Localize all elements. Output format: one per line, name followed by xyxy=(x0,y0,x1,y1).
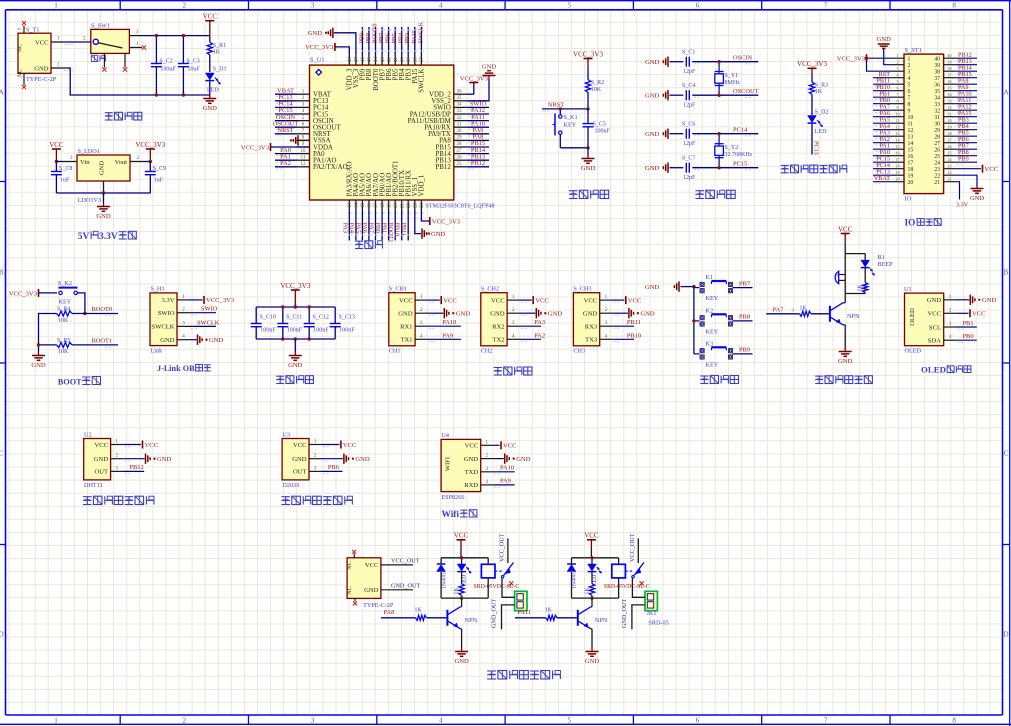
svg-text:SWIO: SWIO xyxy=(158,310,175,317)
svg-text:46: 46 xyxy=(361,57,366,63)
svg-text:IO: IO xyxy=(905,217,916,227)
svg-text:S_CH2: S_CH2 xyxy=(481,286,499,293)
svg-text:B1: B1 xyxy=(878,254,885,261)
svg-text:NC: NC xyxy=(346,586,353,595)
svg-text:GND_OUT: GND_OUT xyxy=(491,599,498,628)
svg-text:7: 7 xyxy=(824,1,828,9)
svg-text:J-Link OB: J-Link OB xyxy=(157,364,195,373)
svg-text:10: 10 xyxy=(908,115,914,121)
svg-text:1uF: 1uF xyxy=(60,177,70,183)
svg-text:38: 38 xyxy=(934,69,940,75)
svg-text:VCC: VCC xyxy=(399,297,413,304)
svg-text:17: 17 xyxy=(374,203,379,209)
svg-text:PC14: PC14 xyxy=(733,126,748,133)
svg-text:21: 21 xyxy=(400,203,405,209)
svg-text:100nF: 100nF xyxy=(287,328,303,334)
svg-text:33: 33 xyxy=(947,99,951,104)
svg-text:GND: GND xyxy=(454,658,469,665)
svg-text:29: 29 xyxy=(457,136,463,141)
svg-text:39: 39 xyxy=(407,57,412,63)
svg-text:DHT11: DHT11 xyxy=(84,482,103,489)
svg-text:1K: 1K xyxy=(815,89,823,95)
svg-text:K3: K3 xyxy=(706,340,714,347)
svg-text:B: B xyxy=(1004,269,1009,277)
svg-text:GND: GND xyxy=(583,311,598,318)
svg-text:NC: NC xyxy=(17,44,24,53)
svg-text:S_C1: S_C1 xyxy=(682,50,695,56)
svg-text:SWCLK: SWCLK xyxy=(417,21,424,43)
svg-text:GND: GND xyxy=(645,93,660,100)
svg-text:17: 17 xyxy=(895,157,899,162)
svg-text:GND: GND xyxy=(34,65,49,72)
svg-text:SRD-05VDC-SL-C: SRD-05VDC-SL-C xyxy=(604,584,650,590)
svg-text:GND: GND xyxy=(96,213,111,220)
svg-text:GND: GND xyxy=(645,284,660,291)
svg-text:27: 27 xyxy=(947,138,951,143)
svg-text:GND: GND xyxy=(490,311,505,318)
svg-text:26: 26 xyxy=(947,144,951,149)
svg-text:32: 32 xyxy=(457,116,463,121)
svg-text:RX1: RX1 xyxy=(400,324,412,331)
svg-text:S_R1: S_R1 xyxy=(213,43,226,49)
svg-text:VCC: VCC xyxy=(95,442,109,449)
svg-text:PA10: PA10 xyxy=(500,465,514,472)
svg-text:PA5: PA5 xyxy=(354,223,361,233)
svg-text:VCC: VCC xyxy=(203,13,218,21)
svg-text:VCC: VCC xyxy=(838,225,853,233)
svg-text:11: 11 xyxy=(301,155,306,160)
svg-text:JK1: JK1 xyxy=(647,610,657,617)
svg-text:GND: GND xyxy=(203,105,218,112)
svg-text:GND: GND xyxy=(355,456,370,463)
svg-text:S_R4: S_R4 xyxy=(57,306,70,312)
svg-text:8: 8 xyxy=(952,1,956,9)
svg-text:GND: GND xyxy=(308,30,323,37)
svg-text:S_U1: S_U1 xyxy=(310,56,325,63)
svg-text:PB9: PB9 xyxy=(739,347,750,354)
svg-text:VCC_3V3: VCC_3V3 xyxy=(573,50,603,58)
svg-text:GND: GND xyxy=(431,231,446,238)
svg-text:6: 6 xyxy=(696,1,700,9)
svg-text:18: 18 xyxy=(895,164,899,169)
svg-text:13: 13 xyxy=(348,203,353,209)
svg-text:VCC_3V3: VCC_3V3 xyxy=(280,282,310,290)
svg-text:30: 30 xyxy=(947,118,951,123)
svg-text:RX2: RX2 xyxy=(492,324,504,331)
svg-text:S_C13: S_C13 xyxy=(339,315,355,321)
svg-text:41: 41 xyxy=(394,57,399,63)
svg-text:VCC_OUT: VCC_OUT xyxy=(629,533,636,562)
svg-text:TXD: TXD xyxy=(465,469,479,476)
svg-text:LED: LED xyxy=(815,129,827,135)
svg-text:27: 27 xyxy=(457,149,463,154)
svg-text:GND: GND xyxy=(581,165,596,172)
svg-text:C: C xyxy=(0,450,4,458)
svg-text:PB11: PB11 xyxy=(627,319,641,326)
svg-text:35: 35 xyxy=(457,96,463,101)
svg-text:24: 24 xyxy=(420,203,425,209)
svg-text:VCC_OUT: VCC_OUT xyxy=(391,558,420,565)
svg-text:10K: 10K xyxy=(591,87,602,93)
svg-text:5: 5 xyxy=(896,79,898,84)
svg-text:21: 21 xyxy=(934,180,940,186)
svg-text:10K: 10K xyxy=(58,318,69,324)
svg-text:21: 21 xyxy=(947,177,951,182)
svg-text:VCC_3V3: VCC_3V3 xyxy=(460,75,489,82)
svg-text:PB12: PB12 xyxy=(130,464,144,471)
svg-text:GND: GND xyxy=(292,456,307,463)
svg-text:5: 5 xyxy=(567,1,571,9)
svg-text:PB10: PB10 xyxy=(627,332,641,339)
svg-text:37: 37 xyxy=(947,73,951,78)
svg-text:3.3V: 3.3V xyxy=(956,202,969,209)
svg-text:1: 1 xyxy=(896,53,898,58)
svg-text:Link: Link xyxy=(151,347,164,354)
svg-text:PA9: PA9 xyxy=(500,478,511,485)
svg-text:29: 29 xyxy=(934,128,940,134)
svg-text:1: 1 xyxy=(54,717,58,725)
svg-text:32: 32 xyxy=(947,105,951,110)
svg-text:S_C2: S_C2 xyxy=(159,59,172,65)
svg-text:VCC: VCC xyxy=(628,297,642,304)
svg-text:WIFI: WIFI xyxy=(445,457,452,471)
svg-text:22: 22 xyxy=(407,203,412,209)
svg-text:20: 20 xyxy=(895,177,899,182)
svg-text:18: 18 xyxy=(908,167,914,173)
svg-text:10: 10 xyxy=(301,149,307,154)
svg-text:3.3V: 3.3V xyxy=(99,232,118,242)
svg-text:30: 30 xyxy=(457,129,463,134)
svg-text:1N4007: 1N4007 xyxy=(441,570,447,589)
svg-text:3: 3 xyxy=(311,1,315,9)
svg-text:CH1: CH1 xyxy=(389,347,401,354)
svg-text:U1: U1 xyxy=(904,286,912,293)
svg-text:14: 14 xyxy=(355,203,360,209)
svg-text:28: 28 xyxy=(947,131,951,136)
svg-text:12: 12 xyxy=(301,162,307,167)
svg-text:GND: GND xyxy=(585,658,600,665)
svg-text:26: 26 xyxy=(934,147,940,153)
svg-text:GND: GND xyxy=(94,456,109,463)
svg-text:7: 7 xyxy=(908,95,911,101)
svg-text:23: 23 xyxy=(934,167,940,173)
svg-text:GND: GND xyxy=(645,165,660,172)
svg-text:PB11: PB11 xyxy=(400,223,407,237)
svg-text:VCC_3V3: VCC_3V3 xyxy=(305,44,334,51)
svg-text:GND: GND xyxy=(31,362,46,369)
svg-text:8MHz: 8MHz xyxy=(725,80,741,86)
svg-text:SWCLK: SWCLK xyxy=(151,324,174,331)
svg-text:RXD: RXD xyxy=(464,482,478,489)
svg-text:8: 8 xyxy=(952,717,956,725)
svg-text:PB10: PB10 xyxy=(394,223,401,237)
svg-text:NC: NC xyxy=(17,69,24,78)
svg-text:5: 5 xyxy=(908,82,911,88)
svg-text:GND: GND xyxy=(970,195,985,202)
svg-text:31: 31 xyxy=(457,122,463,127)
svg-text:1uF: 1uF xyxy=(154,177,164,183)
svg-text:37: 37 xyxy=(934,76,940,82)
svg-text:PA11: PA11 xyxy=(517,609,531,616)
svg-text:PA7: PA7 xyxy=(773,307,785,314)
svg-text:PA10: PA10 xyxy=(442,319,456,326)
svg-text:3: 3 xyxy=(908,69,911,75)
svg-text:PA9: PA9 xyxy=(442,332,453,339)
svg-text:15: 15 xyxy=(908,147,914,153)
svg-text:S_T1: S_T1 xyxy=(26,27,39,34)
svg-text:GND_OUT: GND_OUT xyxy=(391,583,420,590)
svg-text:22: 22 xyxy=(947,170,951,175)
svg-text:38: 38 xyxy=(947,66,951,71)
svg-text:20: 20 xyxy=(394,203,399,209)
svg-text:GND: GND xyxy=(640,311,655,318)
svg-text:PA6: PA6 xyxy=(361,223,368,233)
svg-text:10: 10 xyxy=(895,112,899,117)
svg-text:GND: GND xyxy=(157,456,172,463)
svg-text:4: 4 xyxy=(439,1,443,9)
svg-text:VCC_3V3: VCC_3V3 xyxy=(135,141,165,149)
svg-text:PC15: PC15 xyxy=(733,160,747,167)
svg-text:100nF: 100nF xyxy=(260,328,276,334)
svg-text:11: 11 xyxy=(908,121,914,127)
svg-text:29: 29 xyxy=(947,125,951,130)
svg-text:VCC_3V3: VCC_3V3 xyxy=(837,56,866,63)
svg-text:PA2/TX/AO: PA2/TX/AO xyxy=(313,164,348,171)
svg-text:S_Y2: S_Y2 xyxy=(725,145,739,151)
svg-text:5: 5 xyxy=(567,717,571,725)
svg-text:S_C4: S_C4 xyxy=(682,83,695,89)
svg-text:10K: 10K xyxy=(58,349,69,355)
svg-text:S_ST1: S_ST1 xyxy=(905,47,922,54)
svg-text:PA2: PA2 xyxy=(280,160,291,167)
svg-text:40: 40 xyxy=(934,56,940,62)
svg-text:PB1: PB1 xyxy=(381,223,388,234)
svg-text:S_C12: S_C12 xyxy=(313,315,329,321)
svg-text:26: 26 xyxy=(457,155,463,160)
svg-text:OLED: OLED xyxy=(921,365,946,375)
svg-text:GND: GND xyxy=(516,456,531,463)
svg-text:VCC: VCC xyxy=(535,297,549,304)
svg-text:STM32F103C8T6_LQFP48: STM32F103C8T6_LQFP48 xyxy=(426,203,495,209)
svg-text:RX3: RX3 xyxy=(585,324,598,331)
svg-text:VCC: VCC xyxy=(35,39,49,46)
svg-text:SWIO: SWIO xyxy=(201,306,218,313)
svg-text:VCC: VCC xyxy=(927,311,941,318)
svg-text:27: 27 xyxy=(934,141,940,147)
svg-text:23: 23 xyxy=(947,164,951,169)
svg-text:VCC: VCC xyxy=(584,297,598,304)
svg-text:GND: GND xyxy=(99,161,106,176)
svg-text:PB1: PB1 xyxy=(963,320,974,327)
svg-text:15: 15 xyxy=(361,203,366,209)
svg-text:GND: GND xyxy=(645,59,660,66)
svg-text:33: 33 xyxy=(457,109,463,114)
svg-text:SDA: SDA xyxy=(928,338,941,345)
svg-text:A: A xyxy=(1003,89,1008,97)
svg-text:BOOT0: BOOT0 xyxy=(92,306,113,313)
svg-text:S_CH3: S_CH3 xyxy=(573,286,591,293)
svg-text:K1: K1 xyxy=(706,274,714,281)
svg-text:19: 19 xyxy=(908,173,914,179)
svg-text:36: 36 xyxy=(934,82,940,88)
svg-text:U3: U3 xyxy=(282,431,290,438)
svg-text:12: 12 xyxy=(908,128,914,134)
svg-text:PB6: PB6 xyxy=(328,464,339,471)
svg-text:25: 25 xyxy=(457,162,463,167)
svg-text:38: 38 xyxy=(414,57,419,63)
svg-text:SWCLK: SWCLK xyxy=(197,319,220,326)
svg-text:PB7: PB7 xyxy=(739,280,751,287)
svg-text:13: 13 xyxy=(895,131,899,136)
svg-text:S_C5: S_C5 xyxy=(593,121,606,127)
svg-text:11: 11 xyxy=(895,118,899,123)
svg-text:S_K2: S_K2 xyxy=(58,280,72,287)
svg-text:10uF: 10uF xyxy=(187,67,200,73)
svg-text:1K: 1K xyxy=(415,608,423,614)
svg-text:TYPE-C-2P: TYPE-C-2P xyxy=(363,602,394,609)
svg-text:PA7: PA7 xyxy=(368,223,375,233)
svg-text:PB0: PB0 xyxy=(963,333,974,340)
svg-text:VCC: VCC xyxy=(465,443,479,450)
svg-text:PB12: PB12 xyxy=(435,164,451,171)
svg-text:BOOT: BOOT xyxy=(58,378,82,387)
svg-text:S_CH1: S_CH1 xyxy=(389,286,407,293)
svg-text:GND_OUT: GND_OUT xyxy=(621,599,628,628)
svg-text:19: 19 xyxy=(895,170,899,175)
svg-text:6: 6 xyxy=(908,89,911,95)
svg-text:7: 7 xyxy=(896,92,898,97)
svg-text:KEY: KEY xyxy=(59,298,72,305)
svg-text:VCC: VCC xyxy=(972,311,986,318)
svg-text:1K: 1K xyxy=(584,587,590,595)
svg-text:OSCIN: OSCIN xyxy=(733,54,753,61)
svg-text:47: 47 xyxy=(355,57,360,63)
svg-text:GND: GND xyxy=(288,362,303,369)
svg-text:S_R2: S_R2 xyxy=(591,80,604,86)
svg-text:25: 25 xyxy=(947,151,951,156)
svg-text:13: 13 xyxy=(908,134,914,140)
svg-text:S_SW1: S_SW1 xyxy=(91,22,110,29)
svg-text:32: 32 xyxy=(934,108,940,114)
svg-text:S_LDO1: S_LDO1 xyxy=(78,148,100,155)
svg-text:S_C7: S_C7 xyxy=(682,156,695,162)
svg-text:36: 36 xyxy=(457,89,463,94)
svg-text:U2: U2 xyxy=(84,431,92,438)
svg-text:100nF: 100nF xyxy=(595,128,611,134)
svg-text:Wifi: Wifi xyxy=(442,510,460,520)
svg-text:OSCOUT: OSCOUT xyxy=(733,88,759,95)
svg-text:44: 44 xyxy=(374,57,379,63)
svg-text:S_C3: S_C3 xyxy=(186,59,199,65)
svg-text:VCC: VCC xyxy=(491,297,505,304)
svg-text:KEY: KEY xyxy=(564,121,577,128)
svg-text:37: 37 xyxy=(420,57,425,63)
svg-text:43: 43 xyxy=(381,57,386,63)
svg-text:PA3: PA3 xyxy=(534,319,545,326)
svg-text:VCC: VCC xyxy=(365,562,379,569)
svg-text:30: 30 xyxy=(934,121,940,127)
svg-text:34: 34 xyxy=(457,103,463,108)
svg-text:28: 28 xyxy=(457,142,463,147)
svg-text:OLED: OLED xyxy=(905,347,922,354)
svg-text:ESP8266: ESP8266 xyxy=(441,494,464,501)
svg-text:14: 14 xyxy=(908,141,914,147)
svg-text:GND: GND xyxy=(456,311,471,318)
svg-text:CH3: CH3 xyxy=(573,347,585,354)
svg-text:VCC_OUT: VCC_OUT xyxy=(499,533,506,562)
svg-text:BOOT1: BOOT1 xyxy=(387,223,394,243)
svg-text:VBAT: VBAT xyxy=(874,175,890,182)
svg-text:7: 7 xyxy=(824,717,828,725)
svg-text:15: 15 xyxy=(895,144,899,149)
svg-text:1: 1 xyxy=(908,56,911,62)
svg-text:TYPE-C-2P: TYPE-C-2P xyxy=(26,76,57,83)
svg-text:9: 9 xyxy=(908,108,911,114)
svg-text:OLED: OLED xyxy=(909,308,916,326)
svg-text:100nF: 100nF xyxy=(339,328,355,334)
svg-text:GND: GND xyxy=(877,36,892,43)
svg-text:GND: GND xyxy=(482,63,497,70)
svg-text:S_H1: S_H1 xyxy=(151,286,165,293)
svg-text:100nF: 100nF xyxy=(313,328,329,334)
svg-text:LED: LED xyxy=(207,88,219,94)
svg-text:S_C9: S_C9 xyxy=(153,166,166,172)
svg-text:45: 45 xyxy=(368,57,373,63)
svg-text:4: 4 xyxy=(908,76,911,82)
svg-text:TX1: TX1 xyxy=(401,337,413,344)
svg-text:4: 4 xyxy=(439,717,443,725)
svg-text:PA2: PA2 xyxy=(534,332,545,339)
svg-text:GND: GND xyxy=(364,587,379,594)
svg-text:42: 42 xyxy=(387,57,392,63)
svg-text:40: 40 xyxy=(947,53,951,58)
svg-text:8: 8 xyxy=(896,99,898,104)
svg-text:20: 20 xyxy=(908,180,914,186)
svg-text:34: 34 xyxy=(934,95,940,101)
svg-text:2: 2 xyxy=(896,60,898,65)
svg-text:16: 16 xyxy=(368,203,373,209)
svg-text:S_R3: S_R3 xyxy=(815,82,828,88)
svg-text:Vin: Vin xyxy=(80,159,90,166)
svg-text:SRD-05: SRD-05 xyxy=(648,619,668,626)
svg-text:OUT: OUT xyxy=(95,469,109,476)
svg-text:VCC: VCC xyxy=(584,532,599,540)
svg-text:S_D2: S_D2 xyxy=(815,110,829,116)
svg-text:S_D1: S_D1 xyxy=(213,66,227,72)
svg-text:GND: GND xyxy=(464,456,479,463)
svg-text:VCC_3V3: VCC_3V3 xyxy=(797,60,827,68)
svg-text:1: 1 xyxy=(54,1,58,9)
svg-text:100uF: 100uF xyxy=(160,67,176,73)
svg-text:D: D xyxy=(0,631,4,639)
svg-text:TX2: TX2 xyxy=(493,337,505,344)
svg-text:Vout: Vout xyxy=(115,159,128,166)
svg-text:6: 6 xyxy=(896,86,898,91)
svg-text:OUT: OUT xyxy=(293,469,307,476)
svg-text:23: 23 xyxy=(414,203,419,209)
svg-text:36: 36 xyxy=(947,79,951,84)
svg-text:K2: K2 xyxy=(706,307,714,314)
svg-text:12pF: 12pF xyxy=(683,69,696,75)
svg-text:2: 2 xyxy=(183,717,187,725)
svg-text:S_C8: S_C8 xyxy=(59,166,72,172)
svg-text:35: 35 xyxy=(934,89,940,95)
svg-text:40: 40 xyxy=(400,57,405,63)
svg-text:17: 17 xyxy=(908,160,914,166)
svg-text:B: B xyxy=(0,269,4,277)
svg-text:16: 16 xyxy=(895,151,899,156)
svg-text:VCC: VCC xyxy=(293,442,307,449)
